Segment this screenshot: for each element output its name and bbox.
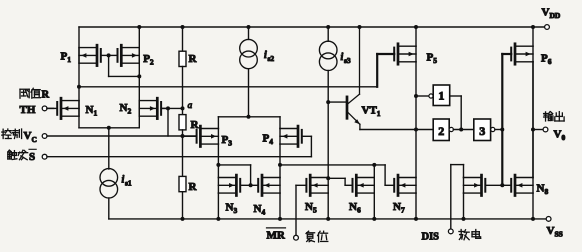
- transistor N4: [251, 175, 280, 217]
- node comparator1 output: [77, 85, 81, 89]
- wire to Vo terminal: [533, 129, 543, 131]
- wire N3 drain riser: [217, 165, 219, 178]
- transistor VT1: [328, 27, 381, 130]
- wire P1 source-drain vertical: [78, 27, 80, 128]
- wire output vertical: [532, 62, 534, 178]
- terminal reset: [294, 235, 299, 240]
- wire VC line: [47, 135, 196, 137]
- wire G1 input: [416, 95, 429, 97]
- node N8-VSS: [531, 217, 535, 221]
- label MR: [267, 228, 286, 241]
- current source is2: [240, 39, 275, 68]
- transistor N7: [385, 175, 416, 215]
- label Vo: [554, 128, 566, 142]
- node VT1 base: [326, 100, 330, 104]
- transistor P1: [61, 45, 109, 65]
- svg-text:R: R: [191, 119, 200, 131]
- wire Ndis source: [463, 193, 465, 219]
- wire DIS riser: [450, 165, 452, 230]
- wire VDD rail: [79, 26, 545, 28]
- svg-text:S: S: [29, 151, 35, 163]
- svg-text:s3: s3: [344, 56, 351, 65]
- label control VC: [2, 129, 37, 144]
- wire is2 top stub: [248, 27, 250, 39]
- terminal Vo: [543, 127, 548, 132]
- transistor N2: [120, 98, 169, 118]
- current source is1: [100, 169, 132, 198]
- wire TH to N1 gate: [47, 107, 54, 109]
- transistor N1: [47, 98, 97, 118]
- wire P1-P2 gate tie: [109, 55, 140, 76]
- wire P4 drain drop: [279, 144, 281, 165]
- wire is1 to VSS rail: [108, 198, 110, 219]
- node a: [181, 101, 193, 111]
- wire P4 source riser: [279, 117, 281, 129]
- svg-text:1: 1: [438, 89, 444, 103]
- node N3 N4 gates: [249, 183, 253, 187]
- terminal trigger: [42, 154, 47, 159]
- gate G1 input bubble: [429, 94, 433, 98]
- resistor R bottom: [179, 176, 198, 193]
- wire output gate line: [501, 54, 503, 185]
- node VC-divider: [181, 134, 185, 138]
- node VDD-is3: [326, 25, 330, 29]
- wire G3 output: [495, 129, 502, 131]
- node VDD-P2: [137, 25, 141, 29]
- node VDD-P6: [531, 25, 535, 29]
- svg-text:R: R: [189, 53, 198, 65]
- wire VSS rail: [109, 218, 546, 220]
- wire N6 source: [373, 193, 375, 219]
- node N4-VSS: [278, 217, 282, 221]
- wire N6 drain riser: [373, 165, 375, 178]
- node P2 drain: [137, 74, 141, 78]
- label trigger: [8, 149, 36, 163]
- node N5 drain: [326, 176, 330, 180]
- wire divider mid2: [182, 130, 184, 177]
- wire N8 source: [532, 193, 534, 219]
- svg-text:DIS: DIS: [422, 231, 440, 242]
- node VDD-is2: [247, 25, 251, 29]
- wire P2/N2 vertical: [138, 27, 140, 128]
- terminal VC: [42, 134, 47, 139]
- node N6-VSS: [372, 217, 376, 221]
- node N2 gate: [166, 106, 170, 110]
- label discharge: [459, 230, 481, 240]
- node divider-VSS: [181, 217, 185, 221]
- node G1 input tap: [414, 94, 418, 98]
- node N3-VSS: [216, 217, 220, 221]
- gate G2 output bubble: [449, 127, 453, 131]
- wire comparator1 output: [79, 86, 377, 88]
- wire node X: [360, 129, 434, 131]
- node latch feedback: [459, 128, 463, 132]
- gate G3: [474, 119, 491, 141]
- svg-text:R: R: [42, 90, 50, 101]
- resistor R top: [179, 51, 198, 66]
- transistor P2: [109, 45, 154, 66]
- wire G1 output: [450, 96, 462, 130]
- node comp2-N6 drain: [372, 163, 376, 167]
- resistor R middle: [179, 115, 200, 131]
- wire divider top: [182, 27, 184, 51]
- label output: [544, 112, 564, 121]
- transistor P6: [502, 44, 551, 66]
- wire P5 drain drop: [415, 62, 417, 130]
- transistor N3: [218, 175, 250, 215]
- node G3-gate line: [500, 128, 504, 132]
- transistor P5: [377, 44, 437, 65]
- transistor N5: [296, 175, 328, 215]
- wire N4 source: [279, 193, 281, 219]
- svg-text:MR: MR: [267, 229, 286, 241]
- node N5-VSS: [326, 217, 330, 221]
- wire tail to is1: [108, 128, 110, 169]
- wire P5 source stub: [415, 27, 417, 46]
- node VDD-P5: [414, 25, 418, 29]
- label DIS: [422, 231, 440, 242]
- gate G3 output bubble: [491, 127, 495, 131]
- svg-text:TH: TH: [20, 104, 36, 116]
- label reset: [306, 231, 328, 242]
- wire N3 diode tie: [218, 165, 250, 185]
- wire N3 source: [217, 193, 219, 219]
- terminal TH: [20, 104, 47, 116]
- label threshold: [20, 88, 49, 100]
- wire N4 drain riser: [279, 165, 281, 178]
- wire comparator2 output: [280, 164, 385, 166]
- wire is2 to common source: [248, 69, 250, 117]
- svg-text:a: a: [188, 101, 193, 111]
- wire P3 P4 common source: [218, 116, 280, 118]
- node P1 P2 gates: [107, 53, 111, 57]
- node N8 Ndis gates: [500, 183, 504, 187]
- wire P6 source stub: [532, 27, 534, 46]
- wire P3 drain drop: [217, 144, 219, 165]
- transistor P4: [263, 126, 312, 146]
- wire N7 source: [415, 193, 417, 219]
- power terminal VDD: [542, 7, 561, 30]
- svg-text:2: 2: [438, 124, 444, 138]
- wire divider bottom: [182, 192, 184, 219]
- wire node a tie to VC: [167, 108, 169, 136]
- wire P4 gate riser: [310, 136, 312, 156]
- wire G2 to G3: [453, 129, 473, 131]
- wire N7 gate riser: [384, 165, 386, 185]
- wire divider mid1: [182, 67, 184, 115]
- terminal DIS: [448, 229, 453, 234]
- wire is3 top stub: [327, 27, 329, 41]
- wire MR riser: [295, 185, 297, 235]
- node VDD-VT1 collector: [358, 25, 362, 29]
- node comparator2 output: [278, 163, 282, 167]
- wire N7 drain riser: [415, 130, 417, 178]
- transistor N8: [502, 175, 548, 196]
- wire N5 source: [327, 193, 329, 219]
- wire DIS jog: [451, 165, 464, 178]
- wire N2 gate to node a: [162, 107, 183, 109]
- node VDD-R divider: [181, 25, 185, 29]
- wire N6 gate feed: [328, 178, 345, 185]
- transistor N6: [345, 175, 374, 215]
- transistor P3: [183, 126, 233, 148]
- node P3-N3 drains: [216, 163, 220, 167]
- svg-text:s1: s1: [125, 178, 132, 187]
- svg-text:3: 3: [479, 124, 485, 138]
- wire trigger line: [47, 156, 311, 158]
- wire N1 N2 source tie: [79, 127, 139, 129]
- node is2 common source: [247, 115, 251, 119]
- node output tap: [531, 128, 535, 132]
- wire P3 source riser: [217, 117, 219, 129]
- node X junction: [414, 128, 418, 132]
- current source is3: [319, 41, 351, 70]
- node source tie: [107, 126, 111, 130]
- svg-text:R: R: [189, 181, 198, 193]
- gate G2: [433, 119, 449, 141]
- gate G1: [433, 85, 450, 106]
- power terminal VSS: [546, 217, 563, 239]
- wire is3 to N5 drain: [327, 71, 329, 178]
- node N7-VSS: [414, 217, 418, 221]
- svg-text:s2: s2: [268, 54, 275, 63]
- wire P5 gate riser: [376, 54, 378, 87]
- transistor Ndischarge: [464, 175, 503, 195]
- node Ndis-VSS: [462, 217, 466, 221]
